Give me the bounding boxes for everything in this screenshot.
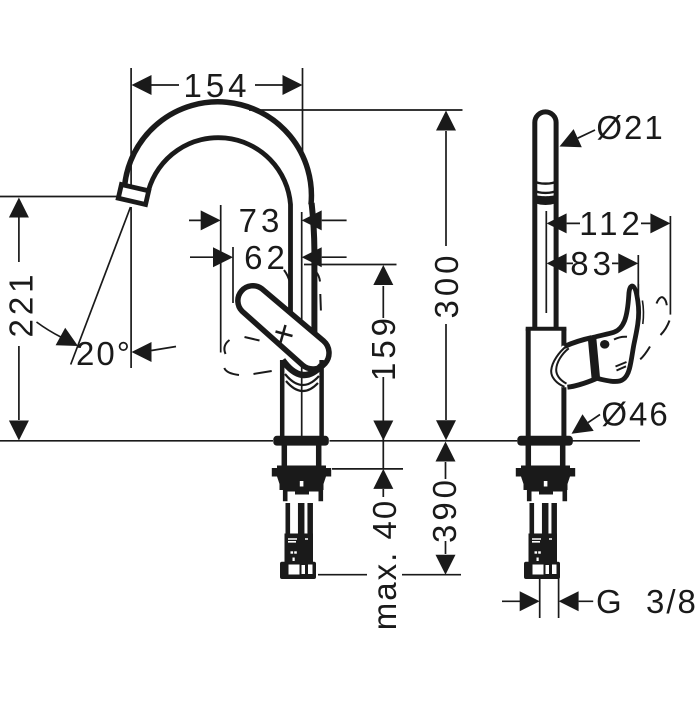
svg-text:112: 112 <box>579 205 644 242</box>
dimension 73 extension line <box>220 205 222 353</box>
handle cap bottom edge <box>567 379 596 388</box>
20 degree slanted line <box>71 207 131 365</box>
cartridge dome thin arc 2 <box>286 381 318 391</box>
G3/8 tails <box>502 600 593 602</box>
dimension 390 line <box>445 462 447 554</box>
aerator tip <box>118 185 148 205</box>
svg-text:max. 40: max. 40 <box>366 499 403 630</box>
connection nut <box>280 562 316 579</box>
svg-text:300: 300 <box>428 251 465 318</box>
hose fitting block <box>285 534 314 563</box>
body column left wall <box>280 360 285 437</box>
below-deck assembly (side view) <box>272 436 331 579</box>
dimension 300 arrow bottom <box>436 420 456 440</box>
fitting white marks <box>288 539 308 542</box>
dimension 221 arrow top <box>9 198 29 218</box>
svg-text:390: 390 <box>426 476 463 543</box>
svg-text:83: 83 <box>570 245 615 282</box>
svg-text:62: 62 <box>244 239 289 276</box>
dimension 112 arrow left <box>547 213 567 233</box>
dimension 83 extension right <box>637 255 639 313</box>
aerator band thin arc 2 <box>535 191 557 193</box>
cartridge dome thick arc <box>283 360 322 375</box>
dimension 62 extension line <box>232 247 234 303</box>
20 degree right arrow <box>132 342 152 362</box>
retainer frame <box>283 489 321 501</box>
spout apex tangent line (300 top) <box>249 109 463 111</box>
svg-text:154: 154 <box>183 67 250 104</box>
dashed lowered-lever top dash <box>245 337 260 341</box>
hose wall middle <box>298 503 305 536</box>
cartridge dome thin arc 1 <box>285 374 319 385</box>
spout outer arc <box>125 102 312 205</box>
dimension 221 arrow bottom <box>9 421 29 441</box>
dimension 73 arrow left <box>201 210 221 230</box>
center extension line (112/83) <box>545 211 547 313</box>
body top edges <box>526 327 567 331</box>
svg-text:Ø21: Ø21 <box>596 109 664 146</box>
diameter 21 label leader <box>578 130 595 138</box>
handle cap inner crescent <box>556 348 569 383</box>
dimension 159/max40 shared line <box>382 286 384 497</box>
body (front view) left wall <box>526 329 531 437</box>
plus mark on lever <box>276 325 293 343</box>
escutcheon flange <box>273 436 329 446</box>
deck / counter line <box>0 440 640 442</box>
body (front view) right wall <box>561 329 566 437</box>
handle grip (horn) <box>594 286 639 381</box>
grip arc below dot <box>614 337 627 340</box>
dimension 154 line <box>152 84 283 86</box>
dimension 154 arrow right <box>283 75 303 95</box>
dimension 300 arrow top <box>436 111 456 131</box>
svg-text:159: 159 <box>365 314 402 381</box>
svg-text:20°: 20° <box>76 335 132 372</box>
dimension 154 extension line left <box>130 68 132 185</box>
svg-text:G 3/8: G 3/8 <box>596 583 698 620</box>
mounting nut <box>277 466 326 477</box>
spout tip reference line (221 top) <box>0 196 122 198</box>
body column right wall <box>319 360 324 437</box>
aerator dark band <box>534 194 558 205</box>
below-deck assembly (front view) <box>516 436 575 579</box>
dashed raised-lever right dash <box>316 272 321 311</box>
dimension 112 line <box>567 222 651 224</box>
handle dot <box>600 340 609 349</box>
handle lever <box>238 286 329 369</box>
dimension 62 tails <box>190 256 347 258</box>
dimension 62 arrow left <box>213 247 233 267</box>
dimension 83 line <box>567 262 619 264</box>
dashed lowered-lever bottom-left dash <box>224 368 239 375</box>
handle joint band <box>592 338 596 379</box>
dimension 83 extension line over grip <box>637 284 639 313</box>
dimension 300 line <box>445 131 447 420</box>
hose wall right <box>307 503 313 536</box>
handle cap fill <box>562 338 596 388</box>
handle cap top edge <box>565 338 592 347</box>
dashed raised-lever left dash <box>284 270 290 283</box>
G3/8 arrow right <box>559 591 579 611</box>
center axis extension line (left view) <box>301 212 303 436</box>
spout tube (front view) <box>535 112 556 328</box>
handle swing dashed arc 2 <box>661 321 670 336</box>
dimension 62 arrow right <box>302 247 322 267</box>
max 40 arrow (up, below line) <box>373 469 393 489</box>
spout inner arc <box>149 138 291 313</box>
dimension 390 arrow bottom <box>436 555 456 575</box>
G3/8 extension lines <box>540 578 559 618</box>
dimension 83 arrow left <box>547 253 567 273</box>
diameter 46 arrowhead <box>572 414 594 434</box>
outlet height reference line (159 top) <box>304 264 397 266</box>
grip outer thin line <box>642 301 643 325</box>
diameter 21 arrowhead <box>560 129 582 147</box>
valve white notch <box>300 481 304 487</box>
20 degree vertical reference line <box>130 207 132 368</box>
dimension 159 arrow top <box>373 265 393 285</box>
nut taper <box>277 477 326 485</box>
shank walls <box>284 444 318 467</box>
grip double dashes <box>616 362 627 371</box>
dashed lowered-lever tip dash <box>224 340 229 354</box>
dimension 154 arrow left <box>132 75 152 95</box>
dimension 390 arrow top <box>436 442 456 462</box>
svg-text:221: 221 <box>2 270 39 337</box>
20 degree right arrow tail <box>152 347 177 351</box>
retainer center tab <box>295 487 309 495</box>
handle swing dashed arc 1 <box>657 297 667 305</box>
svg-text:Ø46: Ø46 <box>601 396 669 433</box>
dimension 73 arrow right <box>302 210 322 230</box>
dimension 154 extension line right <box>302 68 304 158</box>
dimension 159 arrow bottom <box>373 421 393 441</box>
handle cap outer crescent <box>551 346 567 387</box>
dimension 73 tails <box>189 219 347 221</box>
dashed lowered-lever bottom dash <box>254 371 272 374</box>
dimension 112 extension right <box>669 216 671 315</box>
dimension 112 arrow right <box>650 213 670 233</box>
svg-text:73: 73 <box>239 202 284 239</box>
spout collar right edge <box>312 203 315 332</box>
390 bottom reference line <box>318 574 461 576</box>
aerator band thin arc 1 <box>535 181 557 183</box>
diameter 46 leader <box>588 415 600 423</box>
handle swing dashed arc 3 <box>640 347 650 360</box>
hose wall left <box>285 503 290 534</box>
G3/8 arrow left <box>520 591 540 611</box>
20 degree leader arrowhead <box>56 328 78 346</box>
20 degree leader line <box>37 322 61 337</box>
dimension 83 arrow right <box>618 253 638 273</box>
valve body band <box>280 483 324 490</box>
nut white slots <box>289 565 300 575</box>
max 40 lower reference line <box>332 468 403 470</box>
dimension 221 line <box>18 217 20 420</box>
